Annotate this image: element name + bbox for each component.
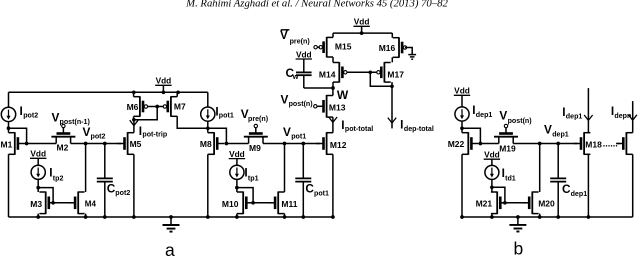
svg-text:pot-total: pot-total: [345, 125, 373, 133]
terminal Vpost(n) (M19 gate): [504, 124, 507, 127]
node dot Cdep1 on rail: [556, 215, 560, 219]
wire Cw bottom to W wire: [303, 75, 305, 88]
wire Vpot1: [263, 143, 320, 145]
svg-text:post(n): post(n): [508, 117, 533, 125]
wire M16 gate to ground: [405, 48, 412, 55]
label W: [337, 88, 349, 102]
wire M8 source to rail: [207, 154, 209, 217]
svg-text:V: V: [83, 125, 91, 139]
svg-text:M. Rahimi Azghadi et al. / Neu: M. Rahimi Azghadi et al. / Neural Networ…: [185, 0, 448, 9]
label M12: [330, 140, 347, 150]
svg-text:M9: M9: [249, 143, 261, 153]
label M7: [174, 102, 186, 112]
wire W node: [304, 87, 333, 89]
node dot M21 source on rail: [490, 215, 494, 219]
label Vpot2: [83, 125, 106, 141]
wire M22 source to rail: [461, 154, 463, 217]
wire M7 source to rail: [176, 92, 178, 96]
transistor M21: [491, 192, 508, 215]
svg-text:b: b: [514, 238, 524, 256]
transistor M18: [574, 132, 591, 155]
current source Idep1: [455, 107, 469, 121]
svg-text:M20: M20: [538, 198, 555, 208]
wire M10 source to rail: [236, 214, 238, 217]
svg-text:pot1: pot1: [291, 133, 306, 141]
node dot Vpot2-M4: [84, 142, 88, 146]
wire M11 source to rail: [284, 214, 286, 217]
label M13: [329, 102, 346, 112]
wire M6 drain down: [133, 116, 135, 120]
node dot M4 source on rail: [84, 215, 88, 219]
node dot Vpot1-M11: [283, 142, 287, 146]
wire M1 diode connection: [9, 128, 27, 143]
label Vdep1: [544, 123, 569, 139]
svg-text:V: V: [499, 108, 507, 122]
wire Ipot1 to M8 node: [207, 121, 209, 133]
transistor M3: [39, 192, 56, 215]
wire Ipot2 to M1 drain node: [8, 122, 10, 133]
Vdd supply symbol (Cw): [296, 49, 312, 72]
wire M22 diode connection: [462, 128, 480, 143]
label Vpost(n) (M19): [499, 108, 532, 125]
wire M22 gate to M19: [480, 143, 498, 145]
svg-text:dep1: dep1: [571, 190, 588, 198]
wire rail to Ipot2: [8, 92, 10, 107]
transistor M13: [316, 95, 333, 118]
node dot M8 drain: [206, 126, 210, 130]
node dot M14-M17 gates: [368, 70, 372, 74]
label M2: [57, 143, 69, 153]
node dot Cpot2 on rail: [103, 215, 107, 219]
wire M13 source down: [332, 117, 334, 133]
svg-text:M1: M1: [1, 140, 13, 150]
svg-text:Vdd: Vdd: [484, 150, 500, 160]
transistor M10: [237, 192, 254, 215]
svg-text:M17: M17: [387, 69, 404, 79]
label M11: [281, 199, 297, 209]
svg-text:pot1: pot1: [314, 190, 329, 198]
svg-text:W: W: [337, 88, 349, 102]
svg-text:Vdd: Vdd: [296, 49, 312, 59]
label Vpre(n): [241, 107, 269, 123]
wire Mdepn gate stub: [617, 143, 619, 145]
wire ground rail (section b): [462, 216, 633, 218]
node dot Vdep1-Cdep1: [556, 142, 560, 146]
svg-text:pot2: pot2: [115, 189, 130, 197]
current source Itp2: [31, 165, 45, 179]
transistor M16: [393, 37, 407, 57]
capacitor Cpot1: [295, 178, 311, 181]
svg-text:pot2: pot2: [91, 133, 106, 141]
svg-text:I: I: [400, 117, 403, 131]
Vdd supply symbol (Itp1): [229, 149, 245, 165]
svg-text:Vdd: Vdd: [30, 149, 46, 159]
transistor Mdepn (nth stage): [616, 132, 633, 155]
svg-text:pre(n): pre(n): [248, 115, 269, 123]
node dot M12 source on rail: [331, 215, 335, 219]
terminal Vpre(n): [254, 124, 257, 127]
transistor M2: [51, 128, 75, 144]
transistor M19: [494, 128, 518, 144]
current source Itp1: [230, 165, 244, 179]
label M9: [249, 143, 261, 153]
transistor M11: [268, 192, 285, 215]
svg-text:V: V: [283, 125, 291, 139]
svg-text:M19: M19: [499, 144, 516, 154]
wire Itp2 to M3 node: [37, 179, 39, 192]
node dot M18 source on rail: [587, 215, 591, 219]
svg-text:tp1: tp1: [248, 174, 259, 182]
svg-text:V: V: [281, 92, 289, 106]
svg-text:dep1: dep1: [476, 111, 493, 119]
svg-text:tp2: tp2: [53, 174, 64, 182]
arrow Ipot-trip: [130, 120, 138, 125]
svg-text:M12: M12: [330, 140, 347, 150]
svg-text:Vdd: Vdd: [454, 86, 470, 96]
node dot Vpot2-Cpot2: [103, 142, 107, 146]
node dot M5 source on rail: [132, 215, 136, 219]
label M14: [319, 69, 336, 79]
svg-text:M6: M6: [127, 102, 139, 112]
node dot M21 drain: [490, 185, 494, 189]
wire M18 source to rail: [587, 154, 589, 217]
node dot M10 drain: [235, 186, 239, 190]
transistor M5: [117, 132, 134, 155]
wire M14 drain to W node: [332, 82, 334, 88]
wire M6 diode connection: [134, 107, 157, 120]
svg-text:Vdd: Vdd: [229, 149, 245, 159]
transistor M1: [9, 132, 26, 155]
wire M16 source to rail: [391, 33, 393, 38]
label Ipot-trip: [139, 124, 168, 139]
node dot M1 gate: [25, 142, 29, 146]
transistor M17: [377, 62, 391, 82]
wire M21-M20 gates: [505, 202, 526, 204]
transistor M20: [522, 192, 539, 215]
node dot M7 source on rail: [176, 90, 180, 94]
svg-text:a: a: [165, 240, 175, 256]
svg-text:M8: M8: [200, 139, 212, 149]
wire M17 drain down (Idep-total): [391, 82, 393, 128]
node dot M11 source on rail: [283, 215, 287, 219]
wire M13 drain to W node: [332, 88, 334, 96]
transistor M15: [319, 37, 333, 57]
label M8: [200, 139, 212, 149]
ground (section a): [163, 217, 180, 232]
label M22: [448, 139, 465, 149]
transistor M7: [163, 96, 177, 116]
label M6: [127, 102, 139, 112]
label Vpre(n)-bar: [280, 28, 310, 46]
svg-text:M16: M16: [379, 43, 396, 53]
node dot W: [331, 86, 335, 90]
label Itd1: [502, 166, 516, 183]
svg-text:pot2: pot2: [23, 112, 38, 120]
wire M15 drain to M14 source: [332, 57, 334, 63]
node dot M3 gate: [51, 201, 55, 205]
label Itp1: [244, 166, 258, 183]
current source Itd1: [485, 165, 499, 179]
arrow Idepn: [629, 115, 637, 120]
wire Itd1 to M21 node: [491, 179, 493, 192]
transistor M14: [333, 62, 377, 82]
arrow Idep-total: [388, 118, 396, 123]
label M20: [538, 198, 555, 208]
wire M1 gate node to M2: [27, 143, 57, 145]
node dot M22 gate: [479, 142, 483, 146]
wire M16 drain to M17 source: [391, 57, 393, 62]
wire M11 drain to Vpot1: [284, 144, 286, 193]
label M3: [30, 199, 42, 209]
label b: [514, 238, 524, 256]
Vdd supply symbol (Itp2): [30, 149, 46, 166]
capacitor Cpot2: [97, 178, 113, 181]
node dot ground b: [516, 215, 520, 219]
svg-text:depn: depn: [614, 112, 631, 120]
node dot M20 source on rail: [538, 215, 542, 219]
label M18: [585, 139, 602, 149]
svg-text:dep-total: dep-total: [404, 125, 434, 133]
svg-text:pot-trip: pot-trip: [142, 131, 167, 139]
node dot Vdd tick on rail: [162, 90, 166, 94]
svg-text:M14: M14: [319, 69, 336, 79]
node dot M22 drain: [460, 126, 464, 130]
wire M3 source to rail: [37, 214, 39, 217]
ground (M16 gate): [408, 55, 416, 60]
svg-text:M4: M4: [85, 199, 97, 208]
svg-text:M22: M22: [448, 139, 465, 149]
label Idep-total: [400, 117, 434, 133]
svg-text:......: ......: [603, 138, 618, 148]
node dot M6 source on rail: [132, 90, 136, 94]
label M5: [130, 139, 142, 149]
transistor M4: [68, 192, 85, 215]
wire M4 drain to Vpot2: [85, 144, 87, 193]
node dot M21 gate: [503, 201, 507, 205]
label M4: [85, 199, 97, 208]
wire M1 source to rail: [8, 154, 10, 217]
wire ground rail (section a): [9, 216, 335, 218]
wire M20 source to rail: [539, 214, 541, 217]
Vdd supply symbol (Itd1): [484, 150, 500, 166]
svg-text:V: V: [52, 111, 60, 125]
node dot Vpot1-Cpot1: [301, 142, 305, 146]
wire M5 source to rail: [133, 154, 135, 217]
label Ipot-total: [341, 118, 373, 133]
wire rail corner to Ipot1: [207, 92, 209, 107]
label Itp2: [49, 166, 63, 183]
current source Ipot2: [1, 107, 15, 121]
svg-text:M5: M5: [130, 139, 142, 149]
wire M17 diode connection: [370, 72, 392, 86]
label a: [165, 240, 175, 256]
label M15: [335, 41, 352, 51]
wire M3-M4 gates: [53, 202, 72, 204]
node dot M10 source on rail: [235, 215, 239, 219]
transistor M6: [134, 96, 164, 116]
wire Cdep1 to rail: [557, 182, 559, 217]
transistor M8: [208, 132, 225, 155]
wire M20 drain to Vdep1: [539, 144, 541, 193]
label Ipot1: [215, 104, 233, 119]
terminal Vpre(n)-bar (M15 gate): [314, 46, 320, 49]
wire Vpot2: [71, 143, 122, 145]
node dot M1 drain: [7, 126, 11, 130]
wire M8 gate to M9: [226, 143, 248, 145]
node dot Vdd tick (weight block): [360, 31, 364, 35]
label M21: [476, 198, 493, 208]
wire Vdd top rail (section a): [9, 91, 208, 93]
label Cpot2: [107, 181, 131, 197]
svg-text:M13: M13: [329, 102, 346, 112]
wire M3 diode connection: [38, 188, 53, 203]
node dot ground a: [169, 215, 173, 219]
label Vpost(n-1): [52, 111, 91, 127]
capacitor Cw: [296, 72, 312, 75]
wire Vdd top rail (weight block): [333, 32, 392, 34]
label continuation dots: [603, 138, 618, 148]
ground (section b): [509, 217, 526, 232]
svg-text:M21: M21: [476, 198, 493, 208]
wire M21 diode connection: [492, 187, 505, 203]
node dot M10 gate: [251, 201, 255, 205]
wire M6 source to rail: [133, 92, 135, 96]
node dot M8 source on rail: [206, 215, 210, 219]
svg-text:M3: M3: [30, 199, 42, 209]
terminal Vpost(n-1): [62, 124, 65, 127]
node dot M6-M7 gates: [155, 105, 159, 109]
label M16: [379, 43, 396, 53]
arrow Ipot-total: [329, 117, 337, 122]
label Idep1 (source): [472, 103, 492, 119]
wire Mdepn source to rail: [632, 154, 634, 217]
label Vpost(n) (M13): [281, 92, 314, 108]
wire M21 source to rail: [491, 214, 493, 217]
Vdd supply symbol (weight block): [353, 17, 369, 33]
wire M15 source to rail: [332, 33, 334, 37]
wire M18 drain up (Idep1): [587, 88, 589, 133]
node dot M6 drain: [132, 118, 136, 122]
wire Mdepn drain up (Idepn): [632, 101, 634, 133]
label Idepn: [611, 104, 631, 120]
svg-text:M7: M7: [174, 102, 186, 112]
svg-text:Vdd: Vdd: [156, 76, 172, 86]
svg-text:M15: M15: [335, 41, 352, 51]
wire Vdep1: [513, 143, 577, 145]
wire Vdep1 to Cdep1: [557, 144, 559, 179]
wire Cpot1 to rail: [302, 182, 304, 217]
current source Ipot1: [201, 107, 215, 121]
label Idep1 (arrow): [562, 105, 582, 120]
Vdd supply symbol (Idep1 source): [454, 86, 470, 107]
wire M8 diode connection: [208, 128, 227, 143]
svg-text:Vdd: Vdd: [354, 17, 370, 27]
label M19: [499, 144, 516, 154]
label Ipot2: [20, 104, 39, 119]
svg-text:td1: td1: [505, 175, 516, 183]
svg-text:M11: M11: [281, 199, 297, 209]
label Cw: [286, 66, 299, 81]
node dot Cpot1 on rail: [301, 215, 305, 219]
label Cdep1: [562, 182, 587, 198]
node dot M17 drain: [390, 84, 394, 88]
wire M12 source to rail: [332, 154, 334, 217]
svg-text:w: w: [292, 73, 299, 81]
svg-text:M10: M10: [222, 199, 239, 209]
wire M7 drain to Ipot1 node: [177, 116, 208, 128]
node dot M8 gate: [225, 142, 229, 146]
label M1: [1, 140, 13, 150]
wire Itp1 to M10 node: [236, 179, 238, 192]
svg-text:post(n): post(n): [289, 100, 314, 108]
arrow Idep1: [584, 115, 592, 120]
label M17: [387, 69, 404, 79]
node dot M3 drain: [36, 186, 40, 190]
transistor M12: [316, 132, 333, 155]
svg-text:pre(n): pre(n): [290, 37, 311, 45]
capacitor Cdep1: [550, 178, 566, 181]
svg-text:V: V: [544, 123, 552, 137]
Vdd supply symbol (section a top): [155, 76, 171, 93]
wire Cpot2 to rail: [104, 182, 106, 217]
terminal Vpost(n) (M13 gate): [314, 105, 317, 108]
wire M4 source to rail: [85, 214, 87, 217]
transistor M22: [462, 132, 479, 155]
svg-text:dep1: dep1: [566, 112, 583, 120]
svg-text:M2: M2: [57, 143, 69, 153]
svg-text:M18: M18: [585, 139, 602, 149]
label Cpot1: [305, 181, 329, 197]
wire Vpot1 to Cpot1: [302, 144, 304, 179]
svg-text:pot1: pot1: [219, 111, 234, 119]
transistor M9: [244, 128, 268, 144]
label Vpot1: [283, 125, 306, 141]
label M10: [222, 199, 239, 209]
node dot Vdep1-M20: [538, 142, 542, 146]
wire M5 drain up: [133, 120, 135, 133]
node dot M22 source on rail: [460, 215, 464, 219]
paper header text: [185, 0, 448, 9]
wire M10-M11 gates: [253, 202, 272, 204]
svg-text:dep1: dep1: [552, 130, 569, 138]
wire Idep1 to M22 node: [461, 121, 463, 133]
wire M10 diode connection: [237, 188, 253, 203]
wire Vpot2 to Cpot2: [104, 144, 106, 179]
node dot M3 source on rail: [36, 215, 40, 219]
